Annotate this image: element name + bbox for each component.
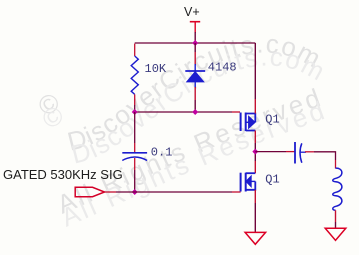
junction V+ node: [192, 40, 198, 46]
input port GATED 530KHz SIG: [3, 167, 123, 197]
wire gate bus (resistor/diode to upper gate): [135, 111, 232, 113]
capacitor C2 output coupling: [295, 142, 306, 164]
wire inductor to ground: [335, 210, 337, 222]
watermark: [32, 28, 330, 232]
svg-text:0.1: 0.1: [151, 146, 173, 160]
junction output node: [252, 149, 258, 155]
svg-text:4148: 4148: [208, 60, 237, 74]
transistor Q1 lower (N-MOSFET): [241, 172, 280, 191]
wire input (port to lower gate): [105, 191, 117, 193]
svg-text:GATED 530KHz SIG: GATED 530KHz SIG: [3, 167, 123, 182]
wire V+ rail: [135, 42, 256, 44]
transistor Q1 upper (P-MOSFET): [241, 112, 280, 131]
junction capacitor-input node: [132, 189, 138, 195]
svg-text:Q1: Q1: [265, 172, 279, 186]
wire capacitor to inductor corner: [305, 151, 314, 153]
resistor R1 10K: [131, 44, 167, 112]
wire upper drain to V+ rail: [254, 43, 256, 99]
svg-text:V+: V+: [184, 5, 200, 19]
junction diode node: [192, 109, 198, 115]
ground right: [325, 228, 346, 240]
inductor L1: [333, 168, 342, 210]
ground left: [245, 232, 266, 244]
wire output node to capacitor: [255, 151, 286, 153]
wire upper source to lower drain: [254, 131, 256, 144]
svg-text:Q1: Q1: [265, 112, 279, 126]
svg-text:10K: 10K: [145, 62, 167, 76]
diode D1 4148: [185, 43, 236, 112]
junction resistor node: [132, 109, 138, 115]
power V+: [184, 5, 200, 43]
capacitor C1 0.1: [122, 112, 172, 192]
wire lower source to ground: [254, 190, 256, 203]
